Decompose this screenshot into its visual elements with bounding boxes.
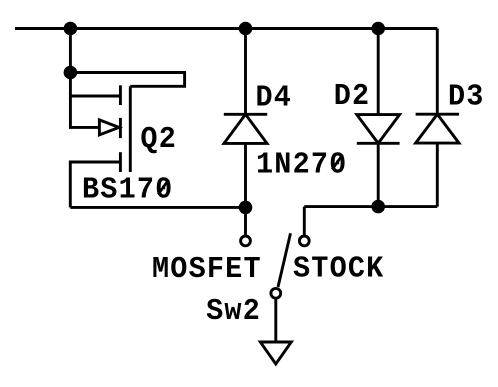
wire bottom right rail xyxy=(304,205,437,208)
diode D3 bottom lead xyxy=(436,143,439,207)
svg-text:D2: D2 xyxy=(334,78,371,113)
transistor Q2 channel dash drain segment xyxy=(119,85,122,105)
transistor Q2 gate vertical line xyxy=(129,86,132,172)
node junction dot at D2 bottom xyxy=(371,200,385,214)
wire gate hook from node to top of Q2 gate line xyxy=(70,73,184,87)
svg-text:1N270: 1N270 xyxy=(256,146,347,181)
diode D2 cathode bar xyxy=(357,142,400,145)
transistor Q2 channel dash body segment xyxy=(119,118,122,138)
terminal STOCK open circle xyxy=(299,236,309,246)
ground symbol triangle xyxy=(260,342,291,364)
switch Sw2 lever xyxy=(278,233,291,287)
node junction dot on Q2 vertical (gate tap) xyxy=(64,66,78,80)
transistor Q2 channel dash source segment xyxy=(119,152,122,172)
wire MOSFET terminal lead xyxy=(244,207,247,234)
wire bottom left rail xyxy=(70,206,245,209)
svg-text:BS170: BS170 xyxy=(82,171,173,206)
wire vertical from top rail to Q2 gate/drain node xyxy=(70,29,99,128)
wire ground lead xyxy=(274,299,277,342)
diode D4 cathode bar xyxy=(224,113,267,116)
svg-text:MOSFET: MOSFET xyxy=(152,251,262,286)
svg-text:Q2: Q2 xyxy=(140,121,177,156)
label BS170 zero slash xyxy=(158,180,168,195)
wire top supply rail xyxy=(15,27,437,30)
svg-text:D4: D4 xyxy=(256,79,293,114)
transistor Q2 body arrow xyxy=(99,120,119,135)
node junction dot at D4 branch on top rail xyxy=(239,22,253,36)
node junction dot at D4 bottom xyxy=(239,201,253,215)
svg-text:Sw2: Sw2 xyxy=(206,293,261,328)
diode D3 cathode bar xyxy=(416,113,459,116)
diode D3 triangle xyxy=(416,114,459,143)
diode D4 triangle xyxy=(224,114,267,143)
svg-text:STOCK: STOCK xyxy=(293,250,384,285)
label 1N270 zero slash xyxy=(332,155,342,170)
diode D3 top lead with corner from top rail xyxy=(436,29,439,115)
wire STOCK terminal lead xyxy=(303,207,306,235)
svg-text:D3: D3 xyxy=(448,78,485,113)
diode D4 top lead xyxy=(244,29,247,115)
diode D2 top lead xyxy=(377,29,380,115)
diode D4 bottom lead xyxy=(244,143,247,207)
node junction dot at Q2 branch on top rail xyxy=(64,22,78,36)
diode D2 bottom lead xyxy=(377,143,380,206)
terminal MOSFET open circle xyxy=(241,236,251,246)
diode D2 triangle xyxy=(357,115,400,144)
wire source stub and lead down to bottom rail xyxy=(70,162,119,207)
switch Sw2 pivot open circle xyxy=(271,288,281,298)
node junction dot at D2 branch on top rail xyxy=(371,22,385,36)
wire drain stub to Q2 xyxy=(70,95,119,98)
